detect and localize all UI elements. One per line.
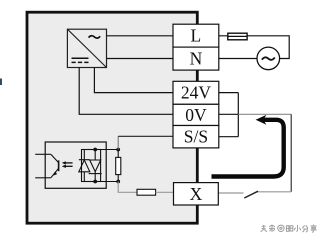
AC source G1	[257, 47, 280, 70]
terminal S/S	[173, 126, 219, 148]
wire N to AC source	[219, 58, 257, 60]
resistor R2 (horizontal)	[137, 189, 156, 195]
watermark	[261, 225, 275, 232]
terminal L	[173, 24, 219, 47]
AC tilde in power supply	[89, 36, 101, 38]
terminal X	[174, 183, 219, 205]
svg-text:L: L	[191, 26, 202, 46]
wire 0V right	[219, 113, 239, 115]
wire S/S right	[219, 136, 239, 138]
terminal 24V	[173, 81, 219, 104]
wire node to S/S (horizontal)	[118, 135, 173, 137]
wire node to S/S (vertical)	[117, 136, 119, 149]
wire X to switch (grey)	[218, 192, 243, 194]
wire node to resistor R2 (grey)	[118, 182, 137, 193]
wire L to fuse to AC source	[219, 36, 289, 59]
grey wire 0V to right	[238, 113, 291, 115]
diode D2 (right, pointing down)	[89, 150, 102, 182]
terminal 0V	[173, 104, 219, 125]
svg-text:X: X	[190, 184, 203, 204]
wire to switch (grey)	[258, 191, 292, 193]
svg-text:24V: 24V	[181, 83, 212, 103]
rails to resistor node	[101, 149, 119, 151]
blue mark at left edge	[0, 79, 2, 86]
junction node top	[116, 148, 120, 152]
switch blade SW1	[244, 191, 258, 198]
junction dot bottom of diode box	[93, 180, 97, 184]
PLC main unit box	[27, 12, 197, 223]
wire R2 to X	[156, 191, 174, 193]
wire 24V right	[219, 92, 239, 94]
resistor R1 (vertical)	[117, 150, 119, 182]
fuse F1	[228, 33, 247, 40]
svg-text:N: N	[190, 48, 203, 68]
current flow arrow	[212, 120, 284, 177]
emitter arrow of Q1	[52, 171, 57, 176]
DC symbol dashed line	[72, 61, 89, 63]
light arrows	[64, 163, 72, 166]
wire down right side	[290, 114, 292, 192]
optocoupler box	[45, 142, 106, 188]
terminal N	[173, 47, 219, 70]
wire power to 24V	[94, 68, 173, 93]
junction node bottom	[116, 180, 120, 184]
junction dot top of diode box	[93, 148, 97, 152]
svg-text:S/S: S/S	[184, 127, 208, 147]
wire power to 0V	[79, 68, 173, 115]
wire power to L	[107, 35, 174, 37]
jumper 24V to S/S	[237, 93, 239, 137]
phototransistor Q1	[35, 154, 58, 178]
power supply U1 (AC/DC converter)	[67, 29, 106, 67]
diode D1 (left, pointing up)	[79, 150, 90, 182]
DC symbol solid line	[72, 57, 89, 59]
wire power to N	[107, 58, 174, 60]
diode bridge box	[82, 150, 101, 182]
svg-text:0V: 0V	[185, 105, 207, 125]
